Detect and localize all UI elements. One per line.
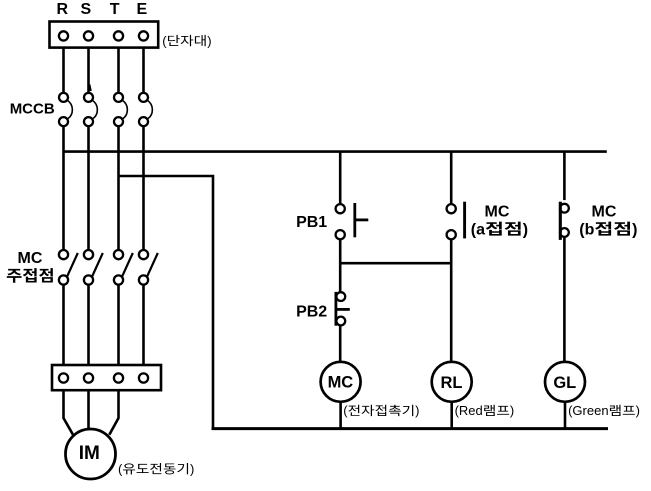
svg-text:): ) — [415, 403, 419, 418]
MC main contact E blade — [147, 253, 158, 277]
terminal TB2-2 circle — [84, 373, 93, 382]
terminal block TB1 (단자대) — [50, 22, 159, 48]
MC main contact T blade — [122, 253, 133, 277]
motor IM circle — [66, 429, 116, 479]
svg-text:MC: MC — [328, 374, 354, 392]
wire RL to bottom bus — [450, 402, 453, 429]
wire bus to MC-b contact — [563, 152, 566, 201]
wire S MC contact to TB2 — [87, 285, 90, 365]
wire control bus L2 (bottom horizontal) — [212, 427, 609, 430]
contact MC-a bar — [463, 202, 466, 239]
svg-text:): ) — [523, 221, 528, 238]
wire U phase TB2 to motor — [64, 390, 74, 435]
label (Red램프) — [455, 403, 515, 418]
contact MC-b lower circle — [560, 228, 569, 237]
contact MC-a upper circle — [447, 204, 456, 213]
terminal TB1-3 circle — [114, 31, 123, 40]
svg-text:): ) — [190, 461, 194, 476]
wire control bus L1 (horizontal) — [64, 150, 607, 153]
svg-text:MC: MC — [485, 203, 510, 220]
MCCB pole E breaker curve — [148, 100, 153, 119]
node S phase label — [80, 1, 91, 18]
wire MC coil to bottom bus — [339, 402, 342, 429]
label MCCB — [10, 101, 55, 118]
MCCB pole R upper contact — [59, 93, 68, 102]
contact MC-b upper circle — [560, 204, 569, 213]
svg-text:IM: IM — [79, 443, 100, 464]
wire PB2 to MC coil — [339, 325, 342, 361]
MCCB pole E lower contact — [139, 117, 148, 126]
terminal TB2-4 circle — [139, 373, 148, 382]
MC main contact S blade — [92, 253, 103, 277]
MCCB pole S lower contact — [84, 117, 93, 126]
wire R TB1 to MCCB — [62, 48, 65, 93]
label MC (b contact) — [592, 203, 617, 220]
wire GL to bottom bus — [564, 402, 567, 429]
push button PB2 actuator stem — [336, 308, 350, 311]
MCCB pole R lower contact — [59, 117, 68, 126]
svg-text:(: ( — [162, 33, 167, 48]
label 주접점 — [7, 268, 53, 283]
svg-text:): ) — [207, 33, 211, 48]
label GL — [553, 374, 576, 392]
label MC (coil) — [328, 374, 354, 392]
wire PB1/MC-a junction (horizontal) — [340, 262, 451, 265]
svg-text:GL: GL — [553, 374, 576, 392]
label (a접점) — [471, 221, 528, 238]
wire W phase TB2 to motor — [109, 390, 118, 435]
svg-text:MCCB: MCCB — [10, 101, 55, 118]
label MC (a contact) — [485, 203, 510, 220]
svg-text:(: ( — [118, 461, 123, 476]
push button PB1 actuator bar — [353, 203, 356, 237]
push button PB2 actuator bar — [334, 292, 337, 326]
MC main contact E upper circle — [139, 250, 148, 259]
wire bus to MC-a contact — [450, 152, 453, 205]
svg-text:(: ( — [343, 403, 348, 418]
label (b접점) — [579, 221, 637, 238]
terminal TB1-1 circle — [59, 31, 68, 40]
svg-text:E: E — [136, 1, 147, 18]
push button PB1 upper contact — [336, 204, 345, 213]
svg-text:): ) — [632, 221, 637, 238]
wire E MC contact to TB2 — [142, 285, 145, 365]
label IM — [79, 443, 100, 464]
coil MC (전자접촉기) circle — [321, 362, 361, 402]
MC main contact S lower circle — [84, 275, 93, 284]
terminal TB1-4 circle — [139, 31, 148, 40]
wire E MCCB to MC main contact — [142, 126, 145, 250]
svg-text:): ) — [510, 403, 514, 418]
MCCB pole E upper contact — [139, 93, 148, 102]
svg-text:MC: MC — [592, 203, 617, 220]
wire E TB1 to MCCB — [142, 48, 145, 93]
svg-text:R: R — [57, 1, 69, 18]
wire T TB1 to MCCB — [117, 48, 120, 93]
lamp GL (Green) circle — [545, 362, 585, 402]
wire S kink artifact — [89, 85, 90, 92]
wire V phase TB2 to motor — [87, 390, 90, 429]
MCCB pole R breaker curve — [68, 100, 73, 119]
svg-text:PB1: PB1 — [296, 214, 327, 231]
label RL — [441, 374, 463, 392]
MCCB pole T upper contact — [114, 93, 123, 102]
push button PB2 upper contact — [336, 292, 345, 301]
label PB1 — [296, 214, 327, 231]
terminal TB2-1 circle — [59, 373, 68, 382]
push button PB1 actuator stem — [355, 218, 369, 221]
MC main contact S upper circle — [84, 250, 93, 259]
MC main contact T lower circle — [114, 275, 123, 284]
svg-text:(Green: (Green — [568, 403, 608, 418]
label (Green램프) — [568, 403, 640, 418]
MC main contact R lower circle — [59, 275, 68, 284]
wire MC-a to RL coil — [450, 239, 453, 361]
MC main contact T upper circle — [114, 250, 123, 259]
wire S TB1 to MCCB — [87, 48, 90, 93]
MCCB pole T breaker curve — [123, 100, 128, 119]
wire T MCCB to MC main contact — [117, 126, 120, 250]
push button PB1 lower contact — [336, 230, 345, 239]
label MC (main contact) — [18, 250, 43, 267]
wire R MCCB to MC main contact — [62, 126, 65, 250]
terminal TB2-3 circle — [114, 373, 123, 382]
push button PB2 lower contact — [336, 317, 345, 326]
label (전자접촉기) — [343, 403, 419, 418]
label PB2 — [296, 303, 327, 320]
wire MC-b to GL coil — [563, 237, 566, 362]
contact MC-b bar — [559, 202, 562, 240]
svg-text:(Red: (Red — [455, 403, 483, 418]
node E phase label — [136, 1, 147, 18]
MCCB pole T lower contact — [114, 117, 123, 126]
label (유도전동기) — [118, 461, 194, 476]
svg-text:RL: RL — [441, 374, 463, 392]
svg-text:S: S — [80, 1, 91, 18]
wire S MCCB to MC main contact — [87, 126, 90, 250]
node R phase label — [57, 1, 69, 18]
svg-text:MC: MC — [18, 250, 43, 267]
MC main contact R blade — [67, 253, 78, 277]
wire PB1 to PB2 — [339, 239, 342, 292]
svg-text:PB2: PB2 — [296, 303, 327, 320]
svg-text:T: T — [110, 1, 120, 18]
svg-text:(b: (b — [579, 221, 594, 238]
svg-text:): ) — [636, 403, 640, 418]
terminal TB1-2 circle — [84, 31, 93, 40]
node T phase label — [110, 1, 120, 18]
MC main contact R upper circle — [59, 250, 68, 259]
label (단자대) — [162, 33, 211, 48]
MC main contact E lower circle — [139, 275, 148, 284]
svg-text:(a: (a — [471, 221, 485, 238]
wire T MC contact to TB2 — [117, 285, 120, 365]
MCCB pole S upper contact — [84, 93, 93, 102]
lamp RL (Red) circle — [432, 362, 472, 402]
wire control return from T phase (horizontal+vertical) — [119, 176, 214, 429]
wire R MC contact to TB2 — [62, 285, 65, 365]
MCCB pole S breaker curve — [93, 100, 98, 119]
terminal block TB2 (motor side) — [52, 365, 161, 390]
wire bus to PB1 — [339, 152, 342, 205]
contact MC-a lower circle — [447, 230, 456, 239]
